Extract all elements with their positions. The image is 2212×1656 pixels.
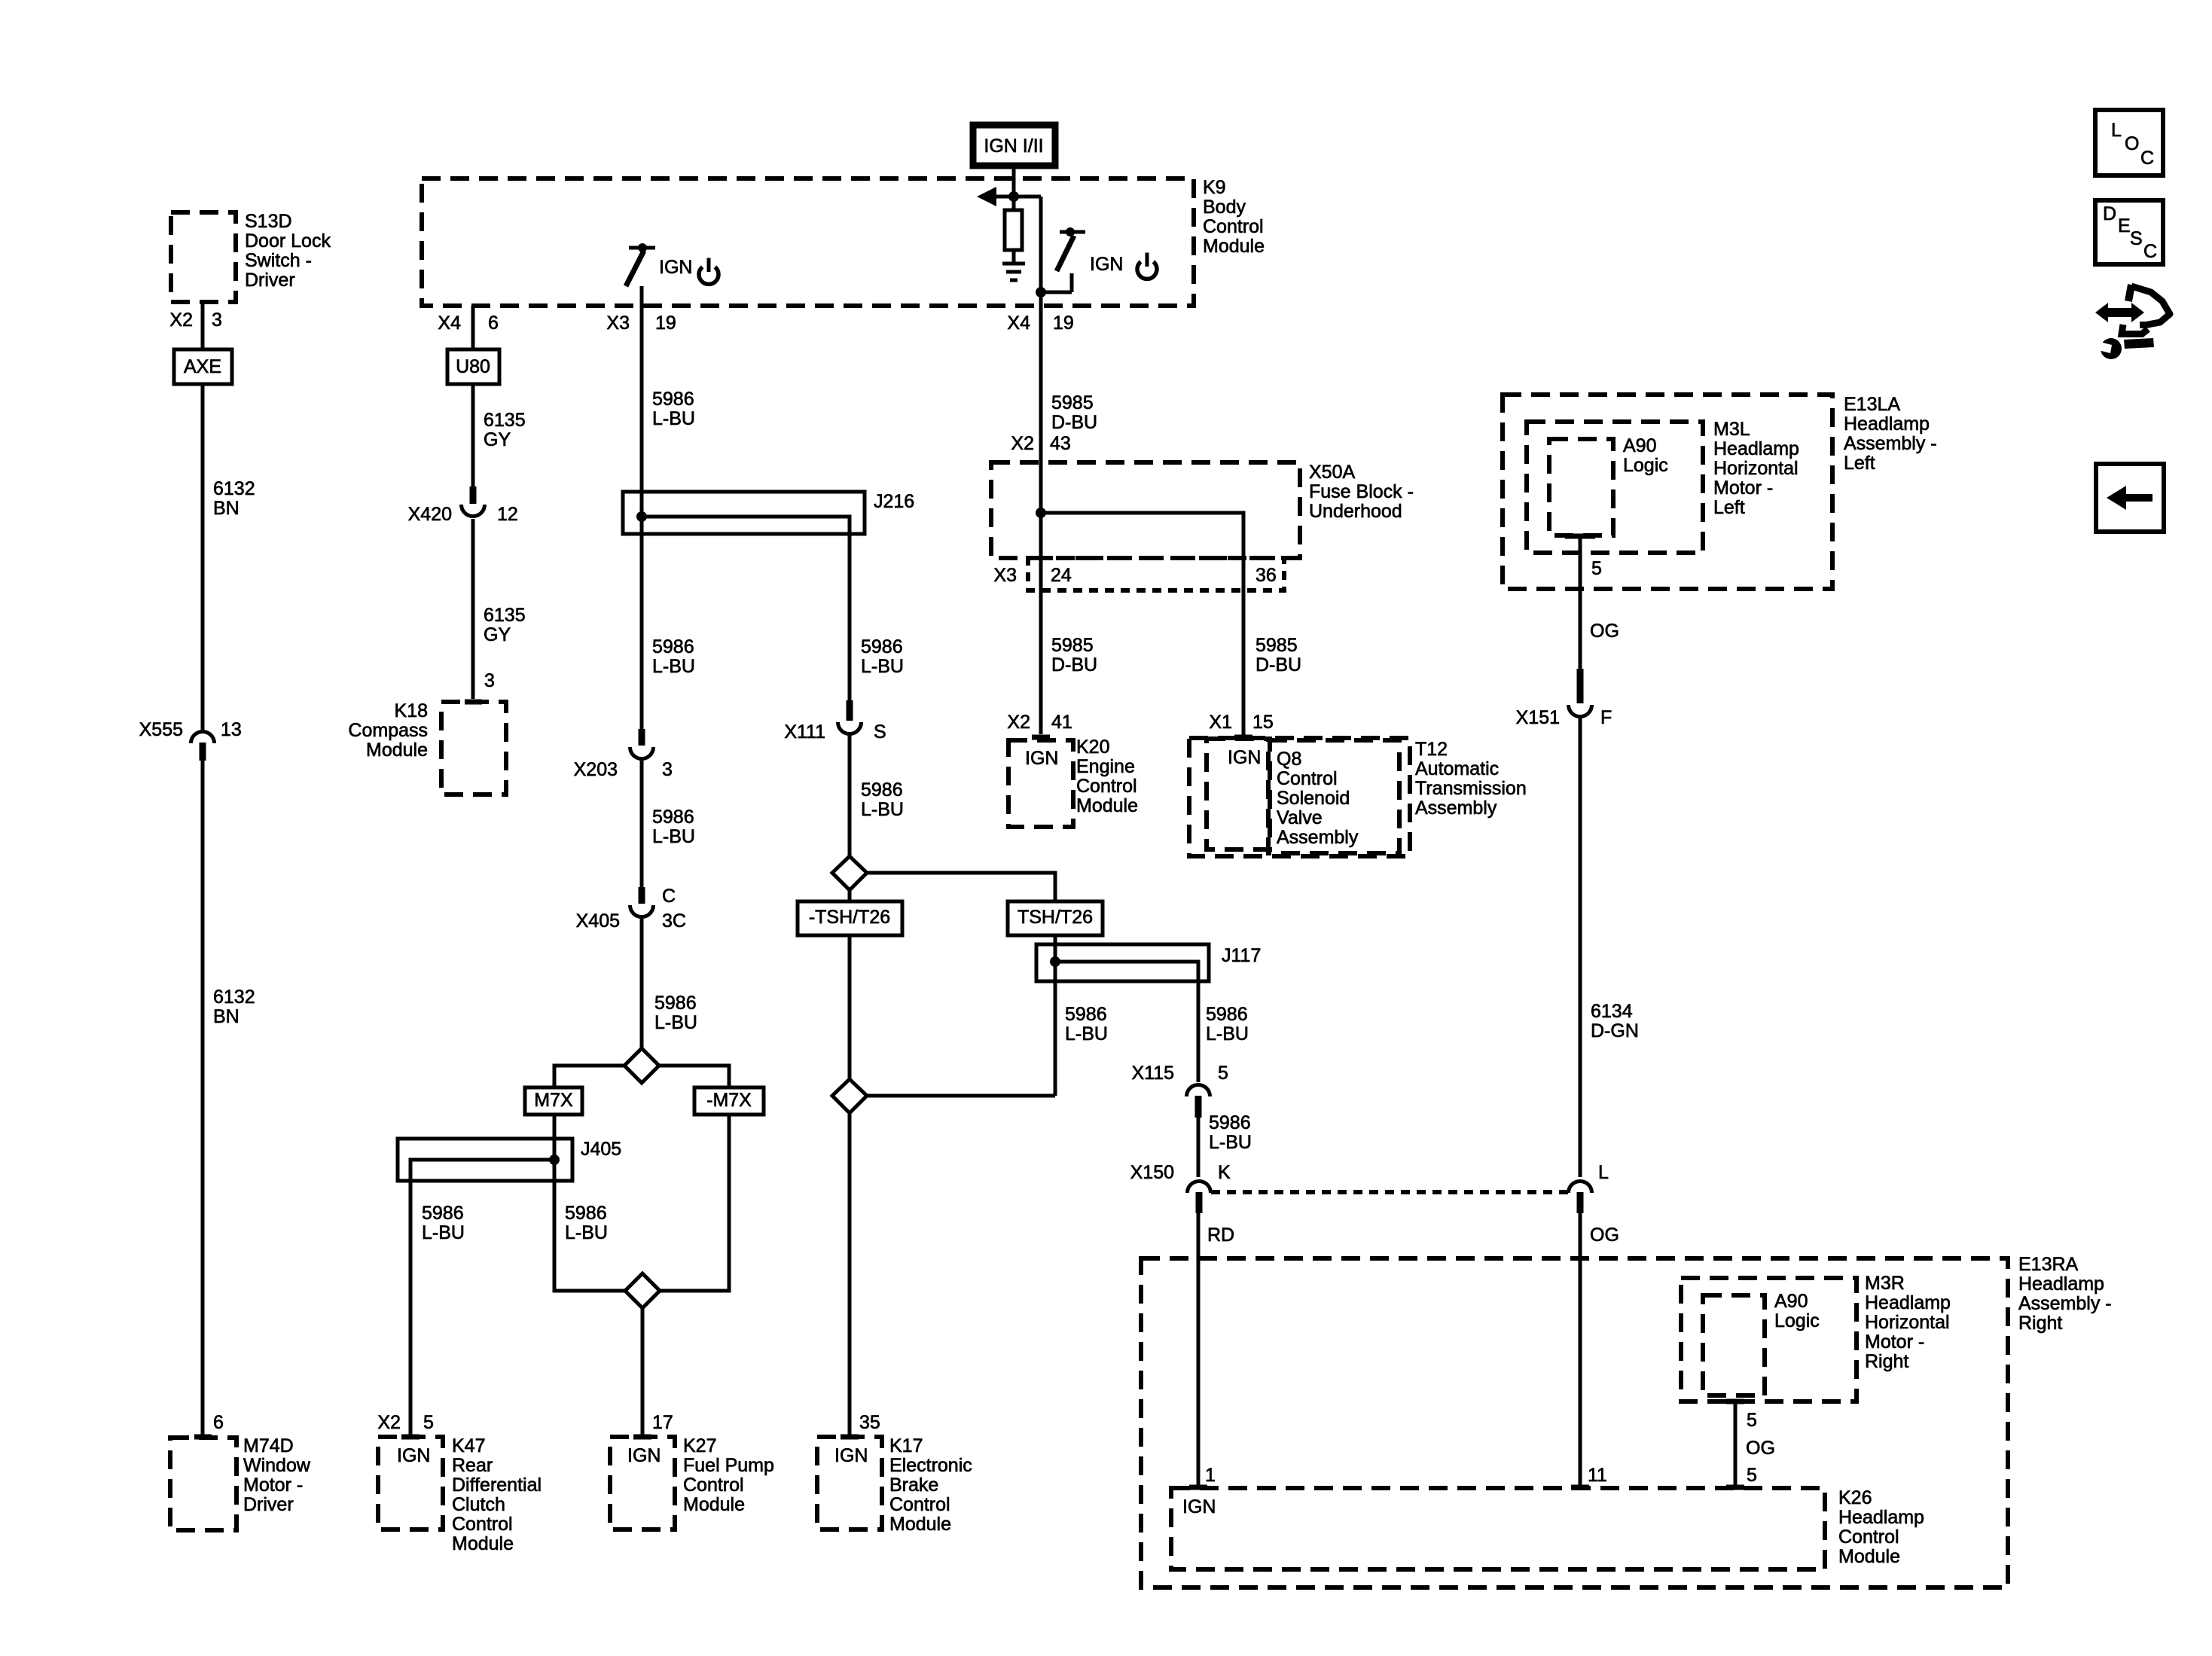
svg-text:X4: X4 [1007, 313, 1030, 334]
splice pack J216 [623, 491, 914, 534]
svg-text:Control: Control [452, 1514, 513, 1535]
wire label 6135 GY (upper) [484, 410, 526, 450]
svg-text:Assembly: Assembly [1277, 827, 1359, 848]
wire K9 X4-6 to U80 [471, 306, 475, 349]
terminal at M74D pin 6 [194, 1435, 212, 1440]
net tag TSH/T26 [1008, 901, 1103, 935]
net tag -M7X [694, 1087, 764, 1115]
in-line connector X111 pin S [784, 700, 886, 743]
wire -TSH/T26 to diamond 2 [848, 935, 852, 1079]
svg-text:Fuse Block -: Fuse Block - [1309, 481, 1414, 502]
svg-text:IGN: IGN [1228, 747, 1261, 768]
svg-text:Body: Body [1203, 197, 1246, 218]
svg-text:5985: 5985 [1051, 635, 1094, 656]
wire label 5986 L-BU (X115 to X150) [1209, 1112, 1252, 1153]
svg-text:K18: K18 [395, 700, 428, 721]
resistor (coil) inside K9 [1012, 197, 1016, 210]
wire label 5986 L-BU (right of J117 drop) [1206, 1004, 1249, 1045]
wire diamond A to M7X [554, 1066, 624, 1087]
connector X150 dotted line K to L [1211, 1190, 1568, 1194]
svg-text:Motor -: Motor - [1865, 1331, 1924, 1353]
svg-text:Clutch: Clutch [452, 1494, 505, 1515]
svg-text:Door Lock: Door Lock [245, 230, 331, 252]
svg-text:Q8: Q8 [1277, 749, 1301, 770]
IGN switch (right) inside K9 [1036, 227, 1085, 297]
svg-text:Driver: Driver [245, 270, 295, 291]
svg-text:C: C [662, 886, 676, 907]
svg-text:J117: J117 [1222, 945, 1261, 966]
svg-text:Switch -: Switch - [245, 250, 312, 271]
wire 5986 L-BU X203 to X405 [640, 761, 644, 902]
wire label 5985 D-BU (upper) [1051, 392, 1097, 433]
svg-text:Rear: Rear [452, 1455, 493, 1476]
wire label 5986 L-BU (above J216) [652, 389, 695, 429]
svg-text:IGN: IGN [834, 1445, 868, 1466]
fuse block X50A - Underhood (dashed box) [991, 462, 1414, 558]
svg-text:O: O [2125, 133, 2139, 154]
wire label 5986 L-BU (J405 down) [565, 1203, 608, 1243]
svg-text:Assembly -: Assembly - [2018, 1293, 2112, 1314]
svg-text:5986: 5986 [422, 1203, 464, 1224]
wire 6135 GY U80 to X420 [471, 384, 475, 488]
svg-text:11: 11 [1588, 1465, 1607, 1486]
svg-text:K27: K27 [683, 1435, 716, 1456]
svg-text:X2: X2 [1007, 712, 1030, 733]
wire label 5986 L-BU (J216 to X203) [652, 636, 695, 677]
svg-text:Headlamp: Headlamp [1713, 438, 1799, 459]
svg-text:3: 3 [662, 759, 673, 780]
wire label 5986 L-BU (X203 to X405) [652, 807, 695, 847]
svg-text:24: 24 [1051, 565, 1072, 586]
wire IGN I/II into K9 [1012, 166, 1016, 197]
svg-text:5986: 5986 [1209, 1112, 1251, 1133]
svg-text:L: L [2111, 120, 2122, 141]
svg-text:5: 5 [1747, 1410, 1757, 1431]
pin label X2 / 41 [1007, 712, 1072, 733]
svg-text:K26: K26 [1838, 1487, 1872, 1508]
svg-text:41: 41 [1051, 712, 1072, 733]
svg-text:K: K [1218, 1162, 1231, 1183]
svg-text:IGN: IGN [1090, 254, 1123, 275]
svg-text:F: F [1600, 707, 1612, 728]
wire branch J117 to X115 [1055, 962, 1198, 1082]
module K47 Rear Differential Clutch Control Module (dashed box) [378, 1435, 542, 1554]
splice pack J117 [1036, 944, 1261, 981]
svg-text:17: 17 [652, 1412, 673, 1433]
terminal at A90 left pin 5 [1565, 534, 1595, 539]
wire A90 left to X151 [1579, 536, 1582, 669]
splice diamond 1 (TSH/T26) [832, 856, 867, 890]
svg-text:5986: 5986 [1206, 1004, 1248, 1025]
svg-text:Control: Control [1277, 768, 1338, 789]
svg-text:X2: X2 [169, 310, 193, 331]
wire -M7X to diamond B [660, 1115, 729, 1291]
svg-text:GY: GY [484, 624, 511, 645]
svg-text:D-BU: D-BU [1051, 654, 1097, 676]
power icon (right) [1137, 253, 1157, 279]
svg-text:L-BU: L-BU [1209, 1132, 1252, 1153]
svg-text:X50A: X50A [1309, 462, 1355, 483]
svg-text:5986: 5986 [565, 1203, 607, 1224]
icon box DESC [2095, 200, 2163, 264]
svg-text:X4: X4 [438, 313, 461, 334]
svg-text:6132: 6132 [213, 478, 255, 499]
pin label X3 / 19 [606, 313, 676, 334]
svg-text:Compass: Compass [348, 720, 428, 741]
svg-text:Left: Left [1844, 453, 1875, 474]
wire 6134 D-GN X151 to L [1579, 718, 1582, 1177]
svg-text:U80: U80 [456, 356, 490, 377]
svg-text:3: 3 [484, 670, 495, 691]
connector IGN box inside T12 [1207, 739, 1270, 849]
wire label 6132 BN (upper) [213, 478, 255, 519]
svg-text:Module: Module [366, 740, 428, 761]
module K26 Headlamp Control Module (dashed box) [1171, 1487, 1924, 1569]
svg-text:5: 5 [1747, 1465, 1757, 1486]
svg-text:1: 1 [1205, 1465, 1216, 1486]
svg-text:Assembly -: Assembly - [1844, 433, 1937, 454]
svg-text:Module: Module [1203, 236, 1265, 257]
svg-text:L: L [1598, 1162, 1609, 1183]
wire through J216 [640, 492, 644, 534]
svg-text:S13D: S13D [245, 211, 292, 232]
svg-text:Horizontal: Horizontal [1865, 1312, 1950, 1333]
junction node in J117 [1050, 956, 1060, 967]
wire diamond 1 to TSH/T26 tag [867, 873, 1055, 901]
svg-text:Control: Control [1203, 216, 1264, 237]
svg-text:M7X: M7X [534, 1090, 573, 1111]
svg-text:L-BU: L-BU [422, 1222, 465, 1243]
svg-text:X203: X203 [574, 759, 618, 780]
svg-text:Underhood: Underhood [1309, 501, 1402, 522]
svg-text:L-BU: L-BU [861, 799, 904, 820]
wire diamond 2 right to J117 drop [867, 1094, 1055, 1098]
wire label 5986 L-BU (J216 branch) [861, 636, 904, 677]
module Q8 Control Solenoid Valve Assembly (dashed box) [1268, 740, 1399, 853]
svg-text:5: 5 [423, 1412, 434, 1433]
svg-text:X111: X111 [784, 721, 825, 743]
wire through J405 [553, 1139, 557, 1181]
svg-text:S: S [2130, 228, 2143, 249]
svg-text:D-GN: D-GN [1591, 1020, 1639, 1041]
wire branch in fuse block to pin 36 [1041, 513, 1243, 735]
wire label 5986 L-BU (K47 branch) [422, 1203, 465, 1243]
svg-text:Driver: Driver [243, 1494, 294, 1515]
svg-text:X2: X2 [1011, 433, 1034, 454]
pin label X4 / 19 [1007, 313, 1073, 334]
svg-text:Left: Left [1713, 497, 1745, 518]
svg-text:J216: J216 [874, 491, 914, 512]
terminal at K26 pin 1 [1189, 1485, 1207, 1490]
pin label X2 / 5 at K47 [377, 1412, 434, 1433]
wire diamond 2 to K17 [848, 1113, 852, 1435]
svg-text:Module: Module [683, 1494, 745, 1515]
svg-text:Differential: Differential [452, 1475, 542, 1496]
svg-text:6132: 6132 [213, 987, 255, 1008]
svg-text:K47: K47 [452, 1435, 485, 1456]
svg-text:E: E [2118, 215, 2131, 236]
wire label 5985 D-BU (right lower) [1256, 635, 1301, 676]
svg-text:Headlamp: Headlamp [1838, 1507, 1924, 1528]
pin label X2 / 43 [1011, 433, 1070, 454]
terminal at K18 pin 3 [465, 700, 482, 705]
wire 5986 L-BU X115 to X150 [1197, 1118, 1201, 1177]
module K18 Compass Module (dashed box) [348, 700, 506, 794]
terminal at K26 pin 5 [1726, 1485, 1744, 1490]
svg-text:X2: X2 [377, 1412, 401, 1433]
svg-text:15: 15 [1252, 712, 1274, 733]
svg-text:5: 5 [1591, 558, 1602, 579]
svg-text:Assembly: Assembly [1415, 798, 1497, 819]
svg-text:X420: X420 [408, 504, 452, 525]
svg-text:Window: Window [243, 1455, 311, 1476]
terminal at K27 pin 17 [633, 1435, 651, 1440]
svg-text:J405: J405 [581, 1139, 621, 1160]
svg-text:Solenoid: Solenoid [1277, 788, 1350, 809]
in-line connector X203 pin 3 [574, 729, 673, 780]
wire branch J216 to X111 [642, 517, 850, 700]
wire label 6135 GY (lower) [484, 605, 526, 645]
svg-text:K20: K20 [1076, 737, 1109, 758]
in-line connector X115 pin 5 [1131, 1063, 1228, 1118]
junction node [1008, 191, 1019, 202]
in-line connector X405 pin C / 3C [576, 886, 686, 932]
svg-text:43: 43 [1050, 433, 1071, 454]
module K27 Fuel Pump Control Module (dashed box) [610, 1435, 774, 1529]
splice diamond 2 (to K17) [832, 1079, 867, 1113]
svg-text:C: C [2140, 148, 2154, 169]
svg-text:Brake: Brake [889, 1475, 938, 1496]
svg-text:Headlamp: Headlamp [1844, 413, 1930, 435]
svg-text:BN: BN [213, 1006, 240, 1027]
svg-text:RD: RD [1207, 1224, 1234, 1246]
svg-text:TSH/T26: TSH/T26 [1018, 907, 1093, 928]
in-line connector X150 pin L [1568, 1162, 1609, 1213]
svg-text:6135: 6135 [484, 410, 526, 431]
svg-text:IGN: IGN [1182, 1496, 1216, 1517]
svg-text:E13LA: E13LA [1844, 394, 1900, 415]
in-line connector X151 pin F [1516, 669, 1612, 728]
svg-text:Valve: Valve [1277, 807, 1323, 828]
ground symbol inside K9 [1002, 264, 1025, 280]
svg-text:Module: Module [1838, 1546, 1900, 1567]
svg-text:X115: X115 [1131, 1063, 1174, 1084]
svg-text:Motor -: Motor - [1713, 477, 1773, 499]
svg-text:6: 6 [213, 1412, 224, 1433]
in-line connector X420 pin 12 [408, 486, 518, 525]
svg-text:5986: 5986 [652, 636, 694, 657]
wire A90 right to K26 pin 5 [1734, 1401, 1738, 1485]
wire label 5986 L-BU (left of J117 drop) [1065, 1004, 1108, 1045]
svg-text:A90: A90 [1623, 435, 1656, 456]
in-line connector X150 pin K [1130, 1162, 1231, 1213]
assembly T12 Automatic Transmission (dashed box) [1189, 738, 1527, 856]
wire 5985 D-BU K9 to fuse block and K20 [1039, 197, 1043, 734]
connector X3 of fuse block (dotted box) [993, 558, 1284, 590]
svg-text:M3L: M3L [1713, 419, 1750, 440]
svg-text:6134: 6134 [1591, 1001, 1633, 1022]
net tag -TSH/T26 [798, 901, 902, 935]
wire RD X150 to K26 pin 1 [1197, 1213, 1201, 1485]
svg-text:3C: 3C [662, 910, 686, 932]
module K17 Electronic Brake Control Module (dashed box) [817, 1435, 972, 1535]
svg-text:6135: 6135 [484, 605, 526, 626]
svg-text:K9: K9 [1203, 177, 1226, 198]
svg-text:Control: Control [683, 1475, 744, 1496]
svg-text:Right: Right [1865, 1351, 1908, 1372]
net tag IGN I/II [973, 125, 1055, 166]
wire branch J405 to K47 [410, 1160, 554, 1435]
module M3L Headlamp Horizontal Motor - Left (dashed box) [1527, 419, 1799, 553]
icon reroute arrows with wrench [2092, 285, 2170, 359]
module S13D Door Lock Switch - Driver (dashed box) [171, 211, 331, 302]
terminal at K17 pin 35 [841, 1435, 859, 1440]
svg-text:OG: OG [1590, 1224, 1619, 1246]
wire M7X to J405 [553, 1115, 557, 1139]
svg-text:IGN I/II: IGN I/II [984, 136, 1043, 157]
svg-text:A90: A90 [1774, 1291, 1808, 1312]
in-line fuse AXE [174, 349, 232, 384]
svg-text:5985: 5985 [1051, 392, 1094, 413]
svg-text:5986: 5986 [861, 636, 903, 657]
svg-text:M74D: M74D [243, 1435, 294, 1456]
wire 5986 L-BU K9 X3-19 down to J216 [640, 306, 644, 492]
assembly E13RA Headlamp Assembly - Right (dashed box) [1141, 1254, 2112, 1587]
svg-text:Right: Right [2018, 1313, 2062, 1334]
wire 5986 L-BU X405 to splice diamond [640, 919, 644, 1048]
svg-text:5986: 5986 [1065, 1004, 1107, 1025]
pin label X2 / 3 [169, 310, 222, 331]
svg-text:OG: OG [1590, 621, 1619, 642]
wire label 6132 BN (lower) [213, 987, 255, 1027]
wire junction to right branch [1014, 195, 1041, 199]
logic block A90 (left, dashed box) [1549, 435, 1668, 535]
wire label 5986 L-BU (X111) [861, 779, 904, 820]
svg-text:6: 6 [488, 313, 499, 334]
wire 6132 BN X555 to M74D [201, 761, 205, 1435]
svg-text:X3: X3 [993, 565, 1017, 586]
arrow to further circuits [996, 195, 1014, 199]
assembly E13LA Headlamp Assembly - Left (dashed box) [1503, 394, 1937, 589]
svg-text:L-BU: L-BU [1065, 1023, 1108, 1045]
svg-text:Module: Module [1076, 795, 1138, 816]
svg-text:5: 5 [1218, 1063, 1228, 1084]
svg-text:Engine: Engine [1076, 756, 1135, 777]
svg-text:OG: OG [1746, 1438, 1775, 1459]
svg-text:D-BU: D-BU [1256, 654, 1301, 676]
svg-text:Logic: Logic [1774, 1310, 1820, 1331]
icon box back arrow [2096, 464, 2164, 532]
terminal at Q8 pin 15 [1234, 735, 1252, 740]
terminal at K26 pin 11 [1571, 1485, 1589, 1490]
svg-text:X150: X150 [1130, 1162, 1174, 1183]
svg-text:5986: 5986 [652, 389, 694, 410]
module M3R Headlamp Horizontal Motor - Right (dashed box) [1681, 1273, 1951, 1401]
svg-text:Fuel Pump: Fuel Pump [683, 1455, 774, 1476]
wire diamond 1 to -TSH/T26 tag [848, 890, 852, 901]
svg-text:D-BU: D-BU [1051, 412, 1097, 433]
wire J405 to diamond B [554, 1181, 625, 1291]
svg-text:35: 35 [859, 1412, 880, 1433]
svg-text:36: 36 [1256, 565, 1277, 586]
svg-text:Electronic: Electronic [889, 1455, 972, 1476]
wire 6132 BN AXE to X555 [201, 384, 205, 730]
svg-text:5985: 5985 [1256, 635, 1298, 656]
wire label 5986 L-BU (X405 to diamond) [654, 993, 697, 1033]
svg-text:S: S [874, 721, 886, 743]
svg-text:X151: X151 [1516, 707, 1560, 728]
junction node in J216 [636, 511, 647, 522]
svg-text:IGN: IGN [627, 1445, 661, 1466]
svg-text:Logic: Logic [1623, 455, 1668, 476]
svg-text:E13RA: E13RA [2018, 1254, 2079, 1275]
svg-text:-M7X: -M7X [706, 1090, 752, 1111]
svg-text:X405: X405 [576, 910, 620, 932]
svg-text:Motor -: Motor - [243, 1475, 303, 1496]
svg-text:IGN: IGN [397, 1445, 430, 1466]
svg-text:X1: X1 [1209, 712, 1232, 733]
logic block A90 (right, dashed box) [1703, 1291, 1820, 1395]
svg-text:L-BU: L-BU [861, 656, 904, 677]
svg-text:13: 13 [221, 719, 242, 740]
splice diamond B (to K27) [625, 1273, 660, 1308]
svg-text:AXE: AXE [184, 356, 221, 377]
svg-text:12: 12 [497, 504, 518, 525]
svg-text:3: 3 [212, 310, 222, 331]
svg-text:GY: GY [484, 429, 511, 450]
svg-text:Headlamp: Headlamp [1865, 1292, 1951, 1313]
net tag M7X [525, 1087, 582, 1115]
terminal at K20 pin 41 [1032, 735, 1050, 740]
module K9 Body Control Module (dashed box) [422, 177, 1265, 306]
splice pack J405 [398, 1139, 621, 1181]
svg-text:19: 19 [655, 313, 676, 334]
svg-text:K17: K17 [889, 1435, 923, 1456]
svg-text:5986: 5986 [652, 807, 694, 828]
IGN switch (left) inside K9 [626, 243, 655, 306]
svg-text:X555: X555 [139, 719, 183, 740]
svg-text:C: C [2143, 241, 2157, 262]
wire 5986 L-BU J216 to X203 [640, 534, 644, 729]
svg-text:Control: Control [889, 1494, 950, 1515]
in-line fuse U80 [447, 349, 499, 384]
svg-text:Horizontal: Horizontal [1713, 458, 1799, 479]
wire 6135 GY X420 to K18 [471, 519, 475, 699]
svg-text:L-BU: L-BU [565, 1222, 608, 1243]
module K20 Engine Control Module (dashed box) [1008, 737, 1138, 827]
svg-text:X3: X3 [606, 313, 630, 334]
svg-text:IGN: IGN [1025, 748, 1058, 769]
svg-text:5986: 5986 [654, 993, 697, 1014]
module M74D Window Motor - Driver (dashed box) [170, 1435, 311, 1530]
wire TSH/T26 through J117 down [1054, 935, 1057, 1096]
svg-text:L-BU: L-BU [652, 656, 695, 677]
svg-text:Module: Module [452, 1533, 514, 1554]
svg-text:5986: 5986 [861, 779, 903, 801]
wire OG L to K26 pin 11 [1579, 1213, 1582, 1485]
wire diamond B to K27 [641, 1308, 645, 1435]
svg-text:BN: BN [213, 498, 240, 519]
power icon (left) [699, 258, 719, 285]
wire S13D pin X2-3 to AXE [201, 302, 205, 349]
pin label X1 / 15 [1209, 712, 1273, 733]
svg-text:Module: Module [889, 1514, 951, 1535]
wire label 5985 D-BU (left lower) [1051, 635, 1097, 676]
svg-text:L-BU: L-BU [1206, 1023, 1249, 1045]
terminal at K47 pin 5 [401, 1435, 420, 1440]
svg-text:Control: Control [1076, 776, 1137, 797]
junction node in fuse block [1036, 508, 1046, 518]
